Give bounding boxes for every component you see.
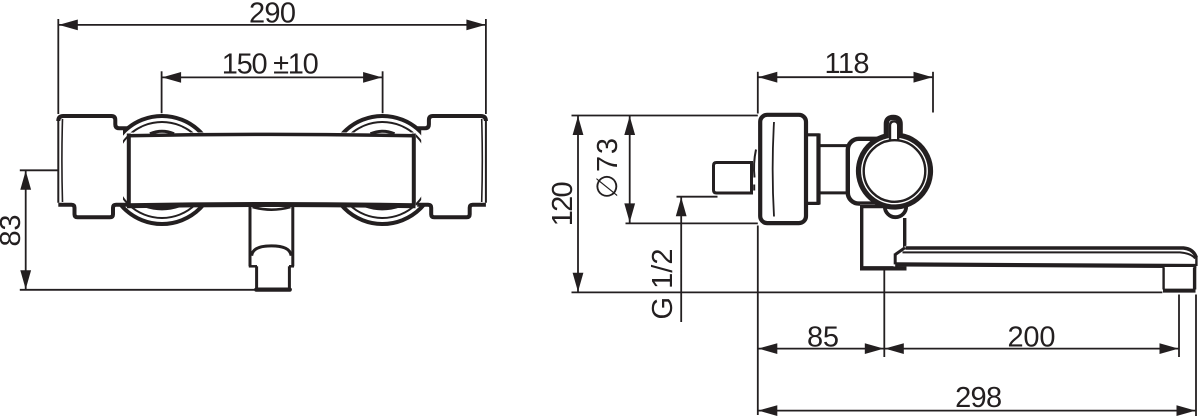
svg-text:∅73: ∅73 <box>592 138 624 199</box>
front view: left wall bracket bottom with tab <box>58 205 127 218</box>
side view: handle bottom bump <box>885 203 906 217</box>
front view: left wall bracket outline <box>58 116 128 128</box>
dimension 290: extension line left <box>57 19 59 114</box>
svg-text:G 1/2: G 1/2 <box>647 249 679 320</box>
svg-text:85: 85 <box>807 321 839 353</box>
svg-text:298: 298 <box>955 382 1002 414</box>
side view: spout bottom edge <box>895 264 1196 266</box>
dimension 85: arrow left <box>758 343 777 354</box>
dimension 118: dimension line <box>758 76 933 78</box>
dimension 200: arrow right <box>1160 343 1179 354</box>
dimension 150±10: extension line right <box>382 71 384 113</box>
dimension 85: arrow right <box>865 343 884 354</box>
svg-text:118: 118 <box>825 48 870 80</box>
dimension 120: dimension line <box>577 116 579 293</box>
front view: body left edge <box>127 134 131 206</box>
side view: neck section top line <box>820 144 849 147</box>
side view: neck section bottom line <box>820 191 849 194</box>
side view: body below top edge <box>860 204 885 208</box>
front view: outlet aerator dome <box>252 246 291 256</box>
side view: nozzle right edge <box>1193 268 1196 290</box>
side view: spout right tip edge <box>1195 257 1197 267</box>
dimension 290: extension line right <box>485 19 487 114</box>
side view: body below right edge <box>903 218 906 248</box>
dimension 118: arrow right <box>914 72 933 83</box>
dimension 290: arrow right <box>466 20 485 31</box>
side view: inlet nipple G1/2 <box>714 163 752 194</box>
svg-text:290: 290 <box>249 0 296 29</box>
front view: left escutcheon outer circle <box>108 116 216 224</box>
front view: outlet pipe top joint lens <box>253 207 291 210</box>
side view: spout left edge <box>894 254 897 265</box>
dimension 150±10: dimension line <box>162 76 383 78</box>
front view: left wall bracket left edge <box>57 118 59 203</box>
side view: nozzle left edge <box>1162 268 1164 290</box>
front view: outlet pipe right edge <box>291 206 294 266</box>
dimension 118: arrow left <box>758 72 777 83</box>
front view: left escutcheon hub bottom lens <box>145 206 179 209</box>
svg-text:150 ±10: 150 ±10 <box>222 48 319 80</box>
side view: body below handle fill <box>860 204 907 268</box>
side view: handle inner contour circle <box>864 140 926 202</box>
front view: right wall bracket (mirror) <box>416 114 486 218</box>
side view: spout fill <box>894 246 1198 268</box>
leader G 1/2: horizontal line <box>677 196 718 198</box>
dimension 298: arrow right <box>1177 405 1196 416</box>
front view: outlet pipe fill <box>248 207 295 292</box>
dimension 83: dimension line <box>25 170 27 289</box>
front view: outlet nozzle right edge <box>288 266 291 289</box>
side view: spout top back edge <box>906 248 1197 258</box>
leader G 1/2: vertical line <box>680 197 682 322</box>
front view: left escutcheon hub top lens <box>150 131 174 134</box>
side view: wall plane extension line lower <box>757 226 759 416</box>
front view: outlet nozzle left edge <box>255 266 258 289</box>
dimension 290: dimension line <box>58 24 486 26</box>
front view: right escutcheon inner circle <box>335 122 431 218</box>
svg-text:200: 200 <box>1008 321 1056 353</box>
front view: left escutcheon inner circle <box>114 122 210 218</box>
svg-text:120: 120 <box>547 181 579 226</box>
dimension 83: top reference line <box>20 169 59 171</box>
side view: spout front top line <box>903 252 1196 258</box>
svg-text:83: 83 <box>0 215 27 247</box>
front view: left wall bracket fill <box>58 114 123 218</box>
side view: escutcheon face curve lower tick <box>753 185 755 191</box>
side view: nozzle fill <box>1165 267 1194 290</box>
side view: escutcheon rounded rect <box>760 115 806 223</box>
dimension 83: bottom reference line <box>20 289 257 291</box>
side view: handle inner tab contour <box>890 121 898 140</box>
side view: body section A <box>806 135 818 204</box>
dimension 85/200: dimension line <box>758 348 1179 350</box>
front view: left bracket face line <box>61 119 64 202</box>
dimension ø73: arrow top <box>624 116 635 135</box>
dimension 200: arrow left <box>885 343 904 354</box>
dimension 150±10: arrow left <box>162 72 181 83</box>
side view: bottom reference line <box>572 291 1163 293</box>
dimension 298: arrow left <box>758 405 777 416</box>
front view: body right edge <box>412 134 416 206</box>
leader G 1/2: arrow up <box>676 197 687 216</box>
side view: body below left edge <box>860 206 863 269</box>
front view: outlet nozzle bottom edge <box>256 288 290 292</box>
front view: right escutcheon hub bottom lens <box>366 206 400 209</box>
dimension 150±10: arrow right <box>363 72 382 83</box>
side view: escutcheon face curve <box>754 150 756 178</box>
front view: body top edge <box>127 134 416 135</box>
side view: nozzle bottom edge <box>1163 289 1196 293</box>
dimension 150±10: extension line left <box>161 71 163 113</box>
front view: outlet step right <box>289 265 294 268</box>
dimension 83: arrow top <box>20 171 31 190</box>
front view: body fill <box>127 133 416 208</box>
dimension 118: extension line left (wall plane top) <box>757 72 759 114</box>
dimension 298: extension line right <box>1195 295 1197 417</box>
front view: outlet pipe left edge <box>249 206 252 266</box>
front view: right escutcheon hub top lens <box>371 131 395 134</box>
side view: handle balloon outline <box>858 117 930 207</box>
side view: top reference line <box>572 115 758 117</box>
side view: spout left bevel <box>895 248 905 255</box>
dimension 118: extension line right <box>932 72 934 113</box>
dimension 290: arrow left <box>59 20 78 31</box>
dimension ø73: dimension line <box>629 116 631 224</box>
front view: body bottom edge <box>127 205 416 206</box>
dimension 120: arrow bottom <box>573 273 584 292</box>
side view: body section A right edge <box>818 134 820 205</box>
front view: right escutcheon outer circle <box>329 116 437 224</box>
dimension 85: extension line right <box>883 270 885 358</box>
dimension 200: extension line right <box>1178 295 1180 358</box>
front view: outlet step left <box>249 265 257 268</box>
side view: body below bottom edge <box>860 266 907 270</box>
dimension ø73: arrow bottom <box>624 203 635 222</box>
side view: escutcheon inner face line <box>773 122 774 217</box>
dimension 120: arrow top <box>573 116 584 135</box>
dimension ø73: bottom reference line <box>626 222 758 224</box>
side view: handle bracket rounded rect <box>848 139 910 204</box>
dimension 298: dimension line <box>758 410 1196 412</box>
dimension 83: arrow bottom <box>20 270 31 289</box>
